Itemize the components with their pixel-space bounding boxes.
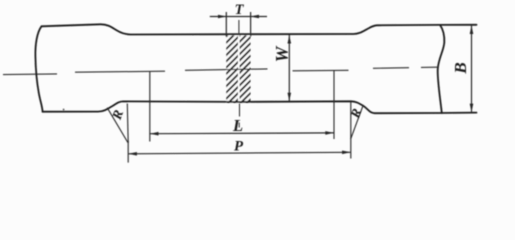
svg-text:T: T [235, 2, 245, 18]
svg-text:B: B [451, 62, 470, 74]
svg-text:P: P [234, 139, 244, 155]
svg-text:L: L [232, 116, 243, 135]
svg-text:W: W [272, 45, 292, 62]
